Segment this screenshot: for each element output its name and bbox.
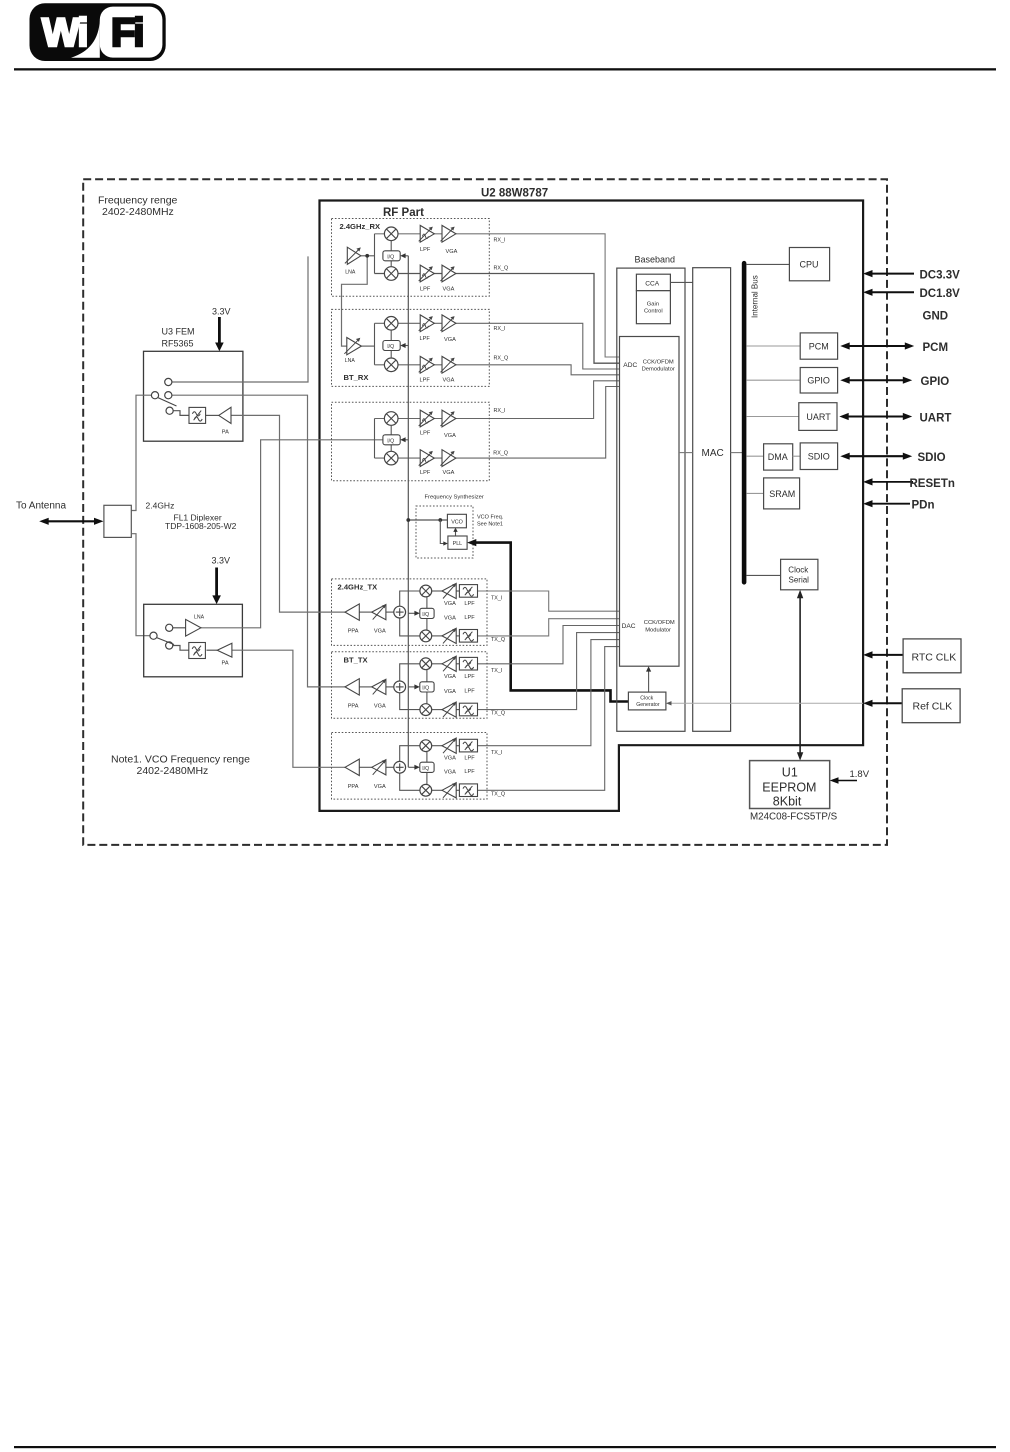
wire lower FEM LNA output to third RX feed — [201, 440, 383, 628]
wire DMA to SDIO — [793, 455, 801, 457]
I/Q splitter BT_RX — [383, 341, 400, 351]
wire bus to SRAM — [746, 492, 763, 494]
FEM U3 box — [144, 351, 243, 441]
svg-text:BT_TX: BT_TX — [344, 655, 368, 664]
PPA amplifier 2.4GHz_TX — [345, 604, 359, 620]
wires 2.4GHz_TX chain — [359, 591, 459, 636]
svg-text:VGA: VGA — [444, 615, 456, 621]
SDIO box — [800, 443, 837, 470]
LNA amplifier BT_RX — [344, 338, 361, 355]
PPA amplifier third TX — [345, 759, 359, 775]
svg-text:PDn: PDn — [912, 500, 935, 512]
svg-text:GPIO: GPIO — [921, 376, 950, 388]
label CCK/OFDM Demodulator — [642, 359, 675, 372]
Ref CLK input arrow — [863, 700, 902, 707]
VGA driver BT_TX — [372, 679, 386, 694]
wire third TX_Q from DAC — [478, 647, 620, 791]
DC3.3V input arrow — [863, 270, 914, 277]
svg-text:CCK/OFDM: CCK/OFDM — [643, 359, 674, 365]
svg-text:LNA: LNA — [345, 358, 356, 364]
svg-text:CPU: CPU — [800, 259, 819, 269]
svg-text:TX_I: TX_I — [491, 668, 502, 674]
svg-text:Demodulator: Demodulator — [642, 367, 675, 373]
wire third TX_I from DAC — [478, 640, 620, 746]
VGA third TX_Q — [442, 783, 456, 798]
svg-text:Note1. VCO Frequency renge: Note1. VCO Frequency renge — [111, 754, 250, 766]
Clock Generator box — [628, 692, 666, 710]
svg-text:PCM: PCM — [809, 341, 829, 351]
svg-text:2.4GHz_TX: 2.4GHz_TX — [338, 582, 378, 591]
svg-text:VCO: VCO — [451, 520, 463, 526]
RTC CLK box — [903, 639, 961, 673]
wire LNA output to mixer junction — [361, 255, 375, 257]
LPF 2.4GHz TX_I — [459, 585, 477, 598]
junction dot LNA output — [365, 254, 369, 258]
svg-text:I/Q: I/Q — [387, 344, 394, 350]
svg-text:TX_I: TX_I — [491, 595, 502, 601]
svg-text:LPF: LPF — [464, 689, 475, 695]
svg-text:VGA: VGA — [444, 689, 456, 695]
svg-text:PCM: PCM — [923, 342, 949, 354]
VGA driver 2.4GHz_TX — [372, 605, 386, 620]
mixer BT RX_Q — [384, 358, 398, 372]
switch arm U3 — [158, 398, 176, 406]
svg-text:DAC: DAC — [622, 623, 636, 630]
PCM box — [800, 333, 837, 359]
svg-text:PA: PA — [222, 430, 229, 436]
PLL feedback wire — [440, 520, 448, 546]
svg-text:LPF: LPF — [420, 336, 431, 342]
VGA BT TX_Q — [442, 702, 456, 717]
wire filter to PA lower — [207, 649, 218, 651]
wire switch port1 to 2.4GHz_RX riser — [172, 256, 308, 382]
svg-text:LNA: LNA — [345, 270, 356, 276]
svg-text:3.3V: 3.3V — [212, 556, 231, 566]
3.3V supply arrow into lower FEM — [212, 568, 221, 605]
VGA BT RX_Q — [441, 356, 456, 373]
svg-text:Generator: Generator — [636, 702, 660, 708]
mixer third RX_I — [384, 412, 398, 426]
mixer pair junction 2.4GHz_RX — [374, 234, 376, 274]
svg-text:CCK/OFDM: CCK/OFDM — [644, 620, 675, 626]
svg-text:LPF: LPF — [420, 287, 431, 293]
third TX block box — [332, 733, 488, 800]
svg-text:Internal Bus: Internal Bus — [751, 275, 760, 318]
svg-text:PLL: PLL — [453, 541, 463, 547]
svg-text:TX_Q: TX_Q — [491, 711, 505, 717]
antenna bidirectional arrow — [39, 518, 103, 525]
outer dashed border — [83, 179, 887, 845]
switch arm lower — [157, 638, 174, 645]
mixer 2.4GHz TX_I — [420, 585, 432, 597]
svg-text:SDIO: SDIO — [808, 451, 830, 461]
svg-text:2402-2480MHz: 2402-2480MHz — [102, 206, 174, 218]
I/Q box 2.4GHz_TX — [420, 608, 434, 618]
RTC CLK input arrow — [863, 651, 903, 658]
svg-text:TX_Q: TX_Q — [491, 637, 505, 643]
LPF third TX_I — [459, 739, 477, 752]
I/Q box third TX — [420, 762, 434, 772]
svg-text:VGA: VGA — [443, 377, 455, 383]
switch contact common lower — [150, 632, 157, 639]
third RX block box — [332, 402, 490, 481]
label CCK/OFDM Modulator — [644, 620, 675, 633]
svg-text:VGA: VGA — [443, 287, 455, 293]
LPF third RX_Q — [419, 450, 435, 467]
label U3 FEM / RF5365 — [162, 327, 195, 349]
svg-text:RX_I: RX_I — [494, 326, 506, 332]
VGA driver third TX — [372, 760, 386, 775]
wire BT TX_Q from DAC — [478, 633, 620, 710]
svg-text:Gain: Gain — [647, 302, 659, 308]
LPF third TX_Q — [459, 784, 477, 797]
LPF BT TX_I — [459, 657, 477, 670]
svg-text:LPF: LPF — [420, 470, 431, 476]
LO feed arrow into third RX I/Q — [400, 437, 408, 442]
LPF BT RX_Q — [419, 356, 435, 373]
wire third RX_I to ADC — [375, 381, 620, 419]
mixer pair junction third RX — [374, 419, 376, 459]
svg-text:PPA: PPA — [348, 703, 359, 709]
svg-text:VGA: VGA — [443, 470, 455, 476]
wire BT RX_I to ADC — [375, 323, 620, 369]
VGA BT RX_I — [441, 315, 456, 332]
svg-text:DMA: DMA — [768, 452, 788, 462]
svg-text:Clock: Clock — [640, 696, 653, 702]
svg-text:RX_I: RX_I — [494, 237, 506, 243]
wire switch common to diplexer — [131, 395, 151, 510]
wire lower PA input from third TX riser — [232, 650, 345, 767]
wire bus to PCM — [746, 345, 800, 347]
diplexer FL1 box — [104, 505, 131, 537]
svg-text:UART: UART — [920, 412, 952, 424]
TX band filter U3 — [189, 407, 206, 423]
I/Q splitter third RX — [383, 435, 400, 445]
svg-text:I/Q: I/Q — [387, 438, 394, 444]
wire lower FEM port to filter — [173, 646, 189, 651]
LPF 2.4GHz RX_Q — [419, 265, 435, 282]
svg-text:3.3V: 3.3V — [212, 307, 231, 317]
svg-text:M24C08-FCS5TP/S: M24C08-FCS5TP/S — [750, 811, 838, 822]
LO feed arrow into BT_TX I/Q — [408, 684, 420, 689]
switch contact port3 — [166, 407, 173, 414]
3.3V supply arrow into U3 FEM — [215, 317, 224, 351]
junction dot VCO input — [438, 518, 442, 522]
svg-text:Serial: Serial — [789, 575, 810, 584]
DMA box — [764, 444, 793, 470]
wire PA input from 2.4GHz_TX riser — [231, 415, 345, 612]
LO feed arrow into third TX I/Q — [408, 765, 420, 770]
GPIO box — [800, 368, 837, 394]
WiFi logo — [30, 3, 166, 61]
svg-text:VGA: VGA — [374, 703, 386, 709]
svg-text:Modulator: Modulator — [645, 628, 671, 634]
svg-text:PPA: PPA — [348, 784, 359, 790]
summer 2.4GHz_TX — [394, 606, 406, 618]
svg-text:LNA: LNA — [194, 614, 205, 620]
frequency synthesizer box — [416, 506, 473, 558]
svg-text:BT_RX: BT_RX — [344, 373, 369, 382]
svg-text:TX_I: TX_I — [491, 750, 502, 756]
VGA BT TX_I — [442, 656, 456, 671]
svg-text:GPIO: GPIO — [807, 376, 830, 386]
VCO box — [447, 514, 466, 528]
LPF BT TX_Q — [459, 703, 477, 716]
thick clock line from Clock Generator to PLL — [467, 539, 628, 702]
mixer BT RX_I — [384, 317, 398, 331]
RESETn input arrow — [863, 478, 913, 485]
svg-text:U1: U1 — [782, 766, 798, 780]
svg-text:RX_Q: RX_Q — [494, 355, 509, 361]
baseband box — [617, 268, 685, 731]
PDn input arrow — [863, 500, 910, 507]
svg-text:GND: GND — [923, 311, 949, 323]
mixer pair junction BT_RX — [374, 323, 376, 365]
svg-text:See Note1: See Note1 — [477, 522, 503, 528]
svg-text:I/Q: I/Q — [422, 766, 429, 772]
switch contact port2 — [165, 392, 172, 399]
svg-text:LPF: LPF — [464, 769, 475, 775]
summer BT_TX — [394, 681, 406, 693]
wires BT_TX chain — [359, 664, 459, 710]
svg-text:Frequency Synthesizer: Frequency Synthesizer — [425, 495, 484, 501]
svg-text:MAC: MAC — [702, 448, 724, 459]
svg-text:VGA: VGA — [374, 629, 386, 635]
EEPROM U1 box — [750, 761, 830, 809]
svg-text:VCO Freq.: VCO Freq. — [477, 515, 504, 521]
svg-text:LPF: LPF — [464, 601, 475, 607]
wire third RX_Q to ADC — [375, 387, 620, 459]
svg-text:RX_Q: RX_Q — [493, 451, 508, 457]
LO feed arrow into BT_RX I/Q — [400, 343, 408, 348]
LPF 2.4GHz TX_Q — [459, 630, 477, 643]
svg-text:RX_I: RX_I — [494, 408, 506, 414]
svg-text:RF5365: RF5365 — [162, 339, 194, 349]
CPU box — [789, 248, 829, 281]
MAC box — [693, 268, 731, 732]
PCM bidirectional arrow — [840, 342, 914, 349]
mixer third TX_Q — [420, 784, 432, 796]
svg-text:UART: UART — [806, 412, 831, 422]
I/Q combiner verticals third TX — [426, 752, 428, 786]
svg-text:VGA: VGA — [444, 601, 456, 607]
mixer third TX_I — [420, 740, 432, 752]
svg-text:Fi: Fi — [111, 11, 143, 55]
svg-text:RF Part: RF Part — [383, 207, 424, 219]
wire BT LNA output — [361, 345, 374, 347]
LNA amplifier 2.4GHz_RX — [345, 247, 361, 264]
svg-text:1.8V: 1.8V — [850, 769, 870, 780]
wire switch port3 to TX filter — [173, 411, 189, 416]
LO feed arrow into 2.4GHz_TX I/Q — [408, 611, 420, 616]
wire LNA branch to BT LNA — [342, 256, 368, 346]
LPF BT RX_I — [419, 315, 435, 332]
LPF 2.4GHz RX_I — [419, 225, 435, 242]
svg-text:VGA: VGA — [444, 770, 456, 776]
wire Clock Generator to modulator — [646, 666, 651, 692]
wire 2.4GHz TX_Q from DAC — [478, 619, 620, 636]
wire lower FEM LNA input — [173, 627, 186, 629]
svg-text:ADC: ADC — [623, 362, 637, 369]
switch contact common — [151, 392, 158, 399]
VCO-PLL vertical with up arrow — [453, 528, 457, 537]
svg-text:U2 88W8787: U2 88W8787 — [481, 188, 548, 200]
DC1.8V input arrow — [863, 289, 914, 296]
VGA third RX_I — [441, 410, 456, 427]
svg-text:RESETn: RESETn — [910, 478, 955, 490]
GPIO bidirectional arrow — [840, 377, 912, 384]
mixer BT TX_I — [420, 658, 432, 670]
PA amplifier lower FEM — [217, 643, 232, 657]
VGA 2.4GHz TX_I — [442, 583, 456, 598]
svg-text:8Kbit: 8Kbit — [773, 795, 802, 809]
wire bus to DMA — [746, 455, 763, 457]
svg-text:VGA: VGA — [374, 784, 386, 790]
svg-text:Baseband: Baseband — [635, 255, 676, 265]
I/Q combiner verticals BT_TX — [426, 670, 428, 705]
svg-text:LPF: LPF — [420, 377, 431, 383]
wire filter to PA — [206, 414, 219, 416]
wire MAC to internal bus — [731, 452, 742, 454]
wire BT TX_I from DAC — [478, 626, 620, 664]
wire Ref CLK to Clock Generator — [666, 701, 863, 705]
svg-text:VGA: VGA — [444, 433, 456, 439]
wires third TX chain — [359, 746, 459, 791]
mixer 2.4GHz RX_Q — [384, 267, 398, 281]
svg-text:RTC CLK: RTC CLK — [912, 651, 957, 663]
switch contact port1 — [165, 378, 172, 385]
2.4GHz_RX block box — [332, 219, 490, 297]
Gain Control box — [636, 291, 670, 324]
SRAM box — [764, 478, 800, 509]
VGA third RX_Q — [441, 450, 456, 467]
mixer 2.4GHz TX_Q — [420, 630, 432, 642]
I/Q connector verticals third RX — [390, 425, 392, 451]
label FL1 Diplexer TDP-1608-205-W2 — [165, 513, 237, 532]
svg-text:LPF: LPF — [420, 430, 431, 436]
BT_TX block box — [332, 652, 488, 719]
I/Q box BT_TX — [420, 682, 434, 692]
Clock Serial to EEPROM bidirectional arrow — [797, 590, 803, 761]
chip U2 88W8787 outline — [320, 201, 864, 811]
wire demodulator to MAC — [679, 452, 693, 454]
svg-text:Ref CLK: Ref CLK — [913, 701, 953, 713]
svg-text:I/Q: I/Q — [387, 254, 394, 260]
wire bus to Clock Serial — [746, 574, 780, 576]
svg-text:VGA: VGA — [444, 756, 456, 762]
1.8V arrow into EEPROM — [830, 777, 857, 784]
I/Q connector verticals 2.4GHz_RX — [390, 241, 392, 267]
svg-text:LPF: LPF — [420, 247, 431, 253]
svg-text:LPF: LPF — [464, 756, 475, 762]
I/Q connector verticals BT_RX — [390, 330, 392, 358]
svg-text:2.4GHz_RX: 2.4GHz_RX — [340, 222, 381, 231]
wire CCA to MAC — [670, 281, 692, 283]
svg-text:2402-2480MHz: 2402-2480MHz — [137, 765, 209, 777]
svg-text:PA: PA — [222, 661, 229, 667]
svg-text:SRAM: SRAM — [769, 489, 795, 499]
svg-text:RX_Q: RX_Q — [494, 265, 509, 271]
svg-text:TX_Q: TX_Q — [491, 791, 505, 797]
wire 2.4GHz TX_I from DAC — [478, 591, 620, 611]
switch contact LNA port lower — [166, 624, 173, 631]
mixer third RX_Q — [384, 451, 398, 465]
label Note1 — [111, 754, 250, 777]
svg-text:SDIO: SDIO — [918, 452, 946, 464]
PLL box — [448, 536, 467, 549]
svg-text:TDP-1608-205-W2: TDP-1608-205-W2 — [165, 521, 237, 531]
junction dot LO — [406, 518, 410, 522]
wire bus to GPIO — [746, 379, 800, 381]
svg-text:I/Q: I/Q — [422, 686, 429, 692]
svg-text:VGA: VGA — [444, 674, 456, 680]
svg-text:I/Q: I/Q — [422, 612, 429, 618]
FEM lower box — [144, 604, 243, 677]
wire 2.4GHz RX_I to ADC — [375, 234, 620, 357]
I/Q splitter 2.4GHz_RX — [383, 251, 400, 261]
svg-text:Clock: Clock — [788, 565, 809, 574]
LO distribution line — [407, 256, 409, 768]
VGA 2.4GHz RX_I — [441, 225, 456, 242]
switch contact PA port lower — [166, 642, 173, 649]
wire diplexer to lower FEM common — [131, 534, 150, 636]
mixer BT TX_Q — [420, 704, 432, 716]
wire BT RX_Q to ADC — [375, 365, 620, 375]
wire bus to CPU — [746, 263, 789, 265]
TX band filter lower FEM — [189, 643, 206, 659]
PPA amplifier BT_TX — [345, 679, 359, 695]
2.4GHz_TX block box — [332, 579, 488, 646]
wire bus to UART — [746, 416, 799, 418]
svg-text:DC3.3V: DC3.3V — [920, 269, 961, 281]
wire LO to VCO — [408, 519, 447, 521]
BT_RX block box — [332, 309, 490, 386]
LO feed arrow into 2.4GHz_RX I/Q — [400, 253, 408, 258]
wire switch port2 to BT_TX riser — [172, 395, 345, 687]
svg-text:PPA: PPA — [348, 629, 359, 635]
svg-text:EEPROM: EEPROM — [762, 781, 816, 795]
top horizontal rule — [14, 68, 996, 70]
UART box — [799, 403, 837, 431]
wire 2.4GHz RX_Q to ADC — [375, 274, 620, 364]
bottom horizontal rule — [14, 1446, 996, 1448]
VGA 2.4GHz RX_Q — [441, 265, 456, 282]
LNA amplifier lower FEM — [186, 619, 201, 636]
internal bus — [742, 263, 747, 582]
svg-text:Wi: Wi — [42, 11, 87, 55]
svg-text:Frequency renge: Frequency renge — [98, 195, 178, 207]
svg-text:DC1.8V: DC1.8V — [920, 288, 961, 300]
CCA box — [636, 274, 670, 291]
PA amplifier U3 — [219, 407, 231, 423]
summer third TX — [394, 761, 406, 773]
Ref CLK box — [902, 689, 960, 723]
svg-text:U3 FEM: U3 FEM — [162, 327, 195, 337]
svg-text:LPF: LPF — [464, 674, 475, 680]
Clock Serial box — [781, 559, 818, 590]
SDIO bidirectional arrow — [840, 453, 912, 460]
VGA third TX_I — [442, 738, 456, 753]
svg-text:2.4GHz: 2.4GHz — [146, 501, 175, 511]
I/Q combiner verticals 2.4GHz_TX — [426, 597, 428, 630]
label VCO Freq. See Note1 — [477, 515, 504, 528]
label Frequency renge — [98, 195, 178, 218]
svg-text:Control: Control — [644, 309, 663, 315]
mixer 2.4GHz RX_I — [384, 227, 398, 241]
VGA 2.4GHz TX_Q — [442, 628, 456, 643]
UART bidirectional arrow — [839, 413, 912, 420]
svg-text:VGA: VGA — [444, 337, 456, 343]
